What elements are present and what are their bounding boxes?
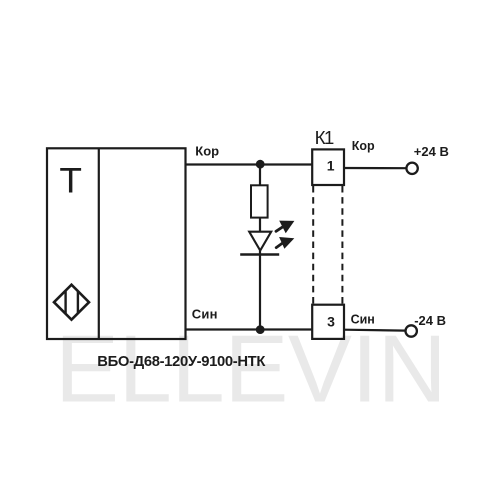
wire: resistor to LED (259, 218, 261, 232)
LED emission arrow 2 head (279, 237, 294, 249)
terminal +24V circle (406, 163, 417, 174)
wire: blue bottom, sensor to relay contact 3 (186, 328, 313, 330)
wire: LED to bottom node (259, 251, 261, 330)
svg-text:ВБО-Д68-120У-9100-НТК: ВБО-Д68-120У-9100-НТК (97, 354, 266, 370)
junction node bottom (256, 325, 265, 334)
wire: contact 1 to +24V terminal (344, 167, 406, 169)
svg-text:+24 В: +24 В (414, 144, 449, 159)
LED VD1 triangle (249, 232, 271, 251)
svg-text:К1: К1 (315, 127, 334, 148)
diamond left chord (64, 291, 66, 313)
relay dashed body left edge (312, 186, 314, 304)
photoelectric symbol diamond (54, 285, 89, 320)
resistor R1 (251, 185, 268, 217)
sensor body outline U1 (47, 148, 186, 339)
svg-text:Син: Син (192, 306, 218, 321)
LED emission arrow 1 tail (276, 227, 283, 232)
wire: contact 3 to -24V terminal (344, 329, 405, 332)
svg-text:3: 3 (327, 313, 335, 329)
relay dashed body right edge (341, 186, 343, 304)
relay contact box 1 (312, 149, 344, 185)
LED emission arrow 1 head (279, 221, 294, 234)
svg-text:Т: Т (59, 161, 82, 201)
svg-text:Кор: Кор (195, 143, 219, 158)
LED emission arrow 2 tail (276, 243, 282, 248)
svg-text:1: 1 (327, 158, 335, 174)
sensor internal divider (98, 148, 100, 339)
terminal -24V circle (406, 325, 417, 336)
junction node top (256, 160, 265, 169)
diamond right chord (77, 291, 79, 313)
relay contact box 3 (312, 305, 344, 339)
wire: brown top, sensor to relay contact 1 (186, 163, 313, 165)
svg-text:-24 В: -24 В (414, 313, 446, 328)
svg-text:Син: Син (351, 313, 375, 327)
LED cathode bar (240, 253, 279, 255)
wire: vertical branch at node A (259, 165, 261, 186)
svg-text:Кор: Кор (352, 139, 375, 153)
